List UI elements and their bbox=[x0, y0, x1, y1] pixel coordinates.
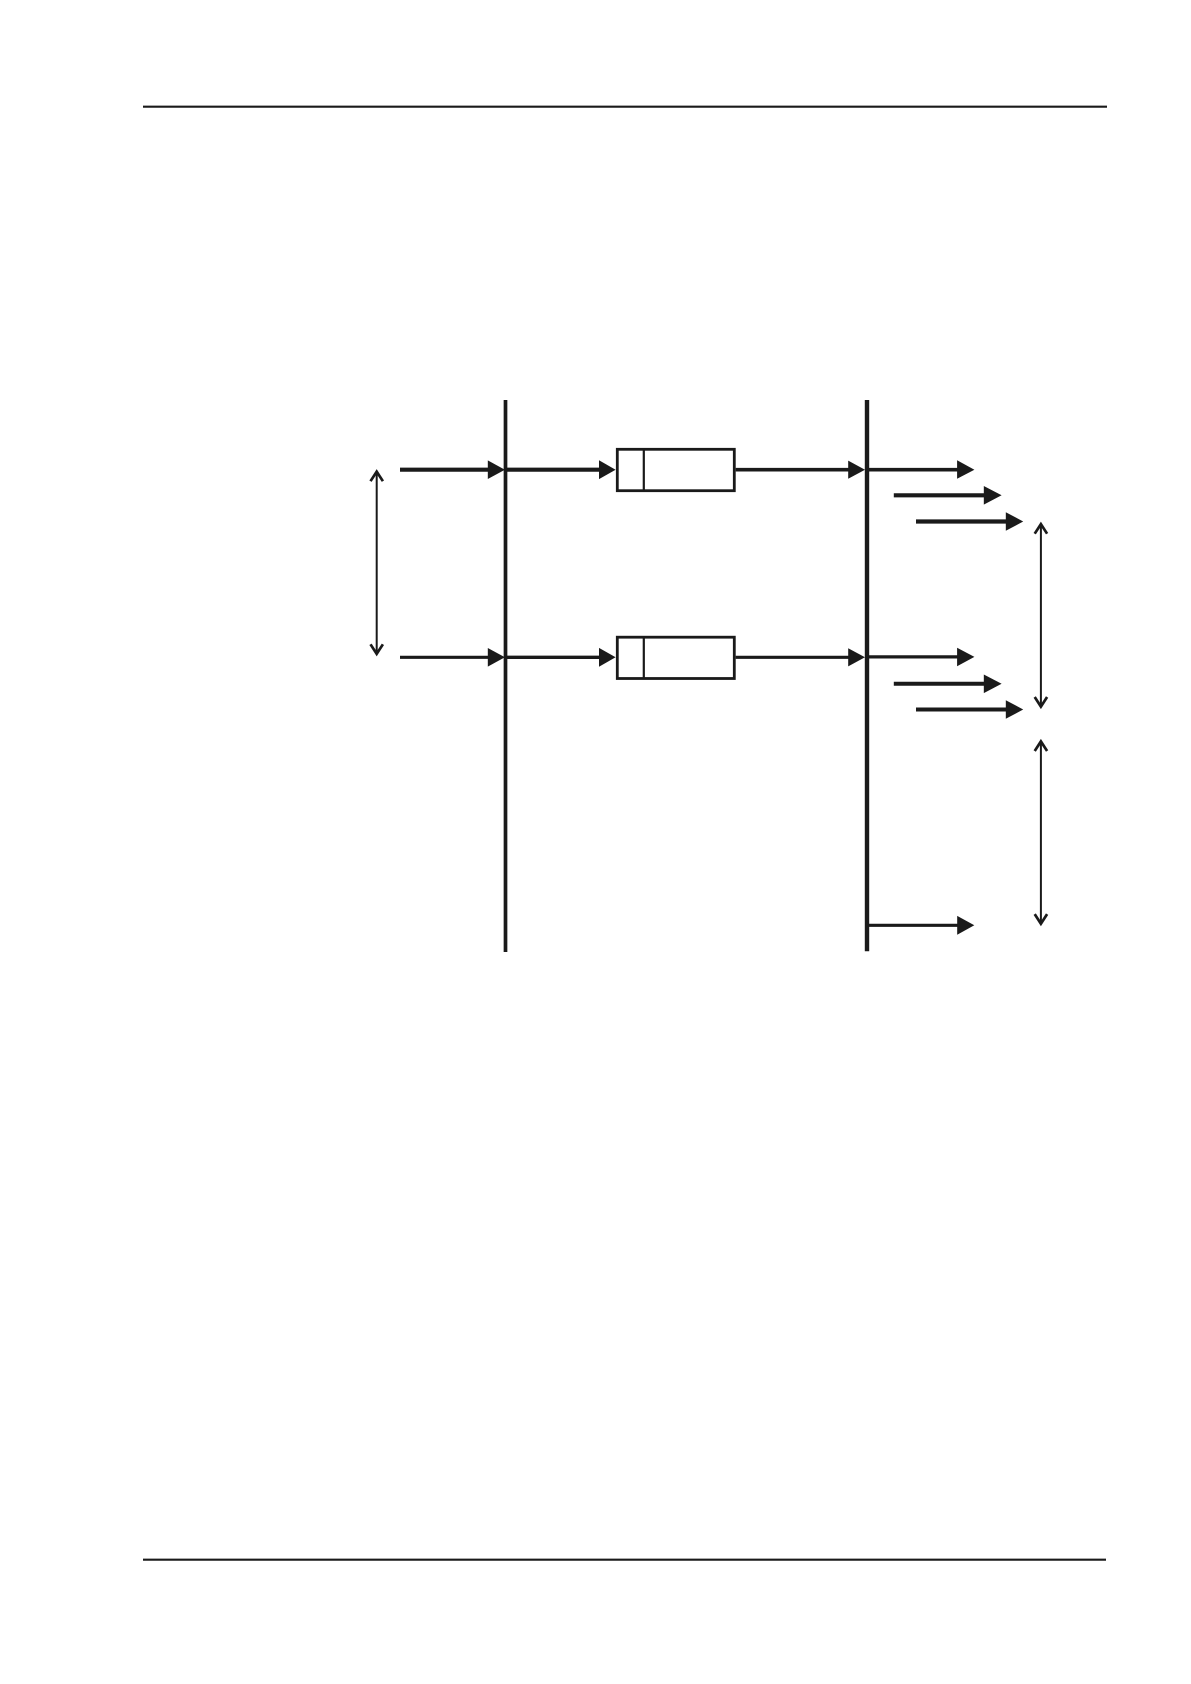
header rule bbox=[143, 106, 1107, 108]
row1 wire from left bus to box bbox=[506, 468, 606, 472]
left vertical bus line bbox=[504, 400, 508, 952]
row1 arrowhead at right bus bbox=[848, 461, 865, 479]
row2 arrowhead at right bus bbox=[848, 648, 865, 666]
row1 output arrow 2 bbox=[894, 493, 987, 497]
row2 input wire bbox=[400, 656, 497, 659]
bottom output arrow from right bus bbox=[867, 924, 960, 927]
row1 input wire bbox=[400, 468, 497, 472]
left vertical double arrow (between row1 and row2) bbox=[376, 474, 378, 653]
row2 arrowhead at box input bbox=[599, 648, 616, 667]
box 1 (delay element row1) bbox=[617, 449, 734, 490]
right vertical bus line bbox=[865, 400, 869, 951]
row2 output arrow 2 bbox=[894, 682, 987, 686]
right vertical double arrow 1 bbox=[1040, 526, 1042, 705]
box 1 divider bbox=[643, 449, 645, 492]
right vertical double arrow 2 bbox=[1040, 743, 1042, 922]
row2 wire from left bus to box bbox=[506, 656, 606, 659]
box 2 divider bbox=[643, 636, 645, 679]
row2 output arrow 1 bbox=[867, 655, 960, 658]
footer rule bbox=[143, 1559, 1106, 1561]
row1 output arrow 3 bbox=[916, 519, 1009, 523]
row1 output arrow 1 bbox=[867, 468, 960, 472]
row1 input arrowhead at left bus bbox=[488, 460, 505, 479]
row2 output arrow 3 bbox=[916, 708, 1009, 712]
row2 input arrowhead at left bus bbox=[488, 648, 505, 667]
box 2 (delay element row2) bbox=[617, 637, 734, 678]
row2 wire from box to right bus bbox=[736, 656, 855, 659]
row1 arrowhead at box input bbox=[599, 460, 616, 479]
row1 wire from box to right bus bbox=[736, 468, 855, 472]
